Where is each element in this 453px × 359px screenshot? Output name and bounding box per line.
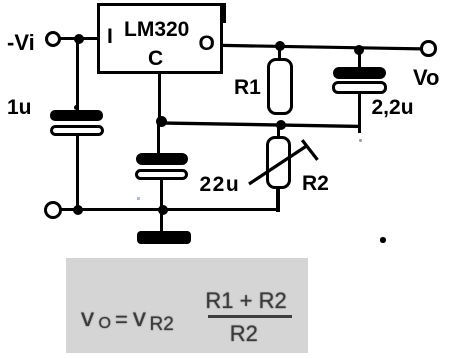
capacitor C3 2,2u top lead: [358, 47, 361, 67]
wire C pin down from IC: [158, 74, 161, 125]
terminal Vo output (open circle): [420, 40, 437, 57]
label -Vi: [7, 32, 35, 54]
node C1 lead blob: [74, 105, 80, 111]
label 1u: [7, 97, 32, 118]
pin label I: [107, 26, 113, 47]
label R1: [234, 77, 261, 98]
label Vo: [413, 67, 439, 89]
formula term v: [81, 304, 94, 330]
node C junction: [156, 116, 167, 127]
wire ground lead: [160, 210, 163, 232]
formula equals sign: [115, 309, 128, 331]
wire C2 bottom lead down to rail: [160, 179, 163, 211]
fraction numerator R1 + R2: [205, 290, 286, 312]
capacitor C1 1u top plate: [50, 110, 103, 121]
R2 adjustment arrow (diagonal strike with T-bar): [240, 130, 330, 195]
resistor R2 (adjustable): [266, 136, 291, 189]
pin label O: [199, 33, 215, 54]
formula term v (second): [133, 304, 146, 330]
label R2: [302, 173, 329, 194]
wire horizontal mid rail (C junction to 2,2u bottom lead, slight slope): [155, 119, 363, 131]
capacitor C2 22u top lead: [157, 123, 160, 154]
node 2,2u top junction: [354, 45, 364, 55]
terminal bottom-left (open circle): [44, 201, 62, 219]
label LM320: [124, 19, 189, 40]
capacitor C2 22u bottom plate: [135, 169, 188, 181]
formula subscript O: [99, 316, 111, 332]
fraction bar: [208, 315, 293, 318]
fraction denominator R2: [230, 323, 258, 345]
stray gray speck: [359, 139, 362, 142]
ground bar: [137, 231, 191, 244]
node output junction at R1 top: [275, 41, 285, 51]
label 22u: [200, 174, 241, 195]
op-amp U1 LM320 regulator box: [97, 3, 224, 74]
wire stub on box top-right corner: [223, 3, 227, 23]
formula panel: vO = vR2 (R1+R2)/R2: [66, 258, 308, 353]
wire R1 top lead: [278, 46, 281, 58]
label 2,2u: [372, 97, 414, 118]
resistor R1: [267, 58, 294, 115]
node input junction: [74, 34, 84, 44]
capacitor C3 2,2u bottom lead: [358, 93, 361, 133]
stray black dot: [380, 237, 386, 243]
stray blue speck: [137, 197, 140, 200]
wire input junction down to C1: [76, 38, 79, 111]
wire bottom rail: [53, 208, 280, 211]
wire R2 bottom lead: [276, 188, 281, 212]
wire output from pin O to Vo terminal (slight downward slope): [220, 42, 425, 53]
wire R2 top lead from R1 bottom junction: [277, 125, 280, 137]
capacitor C2 22u top plate: [136, 153, 188, 165]
capacitor C1 1u bottom plate: [50, 125, 104, 136]
capacitor C3 2,2u top plate: [333, 67, 387, 79]
node ground junction: [158, 205, 169, 216]
pin label C: [148, 48, 163, 69]
formula subscript R2: [150, 315, 174, 334]
wire input horizontal from -Vi terminal to IC pin I: [60, 37, 97, 40]
capacitor C3 2,2u bottom plate: [332, 81, 388, 94]
wire C1 bottom lead down to bottom rail: [76, 135, 79, 211]
node R1 bottom junction: [276, 120, 286, 130]
node bottom-left junction: [73, 205, 83, 215]
terminal -Vi input (open circle): [45, 31, 61, 47]
